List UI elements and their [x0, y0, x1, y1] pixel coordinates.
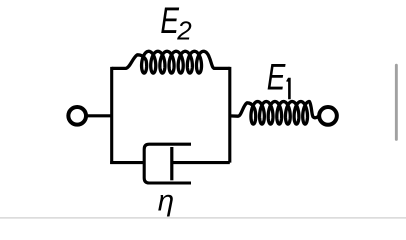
dashpot piston plate — [170, 147, 173, 180]
dashpot cylinder (cup) — [144, 144, 191, 183]
wire: right vertical of parallel branch — [228, 67, 231, 163]
left terminal circle — [68, 107, 86, 125]
spring E1 (series coil) — [230, 102, 319, 125]
scrollbar thumb — [395, 64, 398, 141]
wire: bottom rail to dashpot — [110, 161, 144, 164]
spring E2 (top branch coil) — [112, 51, 230, 73]
svg-text:η: η — [158, 184, 174, 217]
dashpot piston rod — [172, 161, 230, 164]
wire: left vertical of parallel branch — [110, 67, 113, 164]
svg-text:2: 2 — [176, 16, 192, 46]
right terminal circle — [319, 107, 337, 125]
divider hairline — [0, 217, 406, 218]
svg-text:E: E — [267, 55, 287, 97]
wire: left lead — [87, 114, 111, 117]
